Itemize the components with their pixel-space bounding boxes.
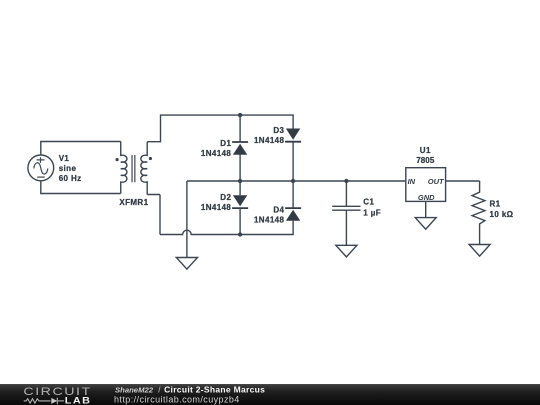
svg-text:sine: sine [59, 164, 77, 173]
svg-text:D1: D1 [220, 139, 231, 148]
svg-text:7805: 7805 [416, 156, 435, 165]
svg-text:GND: GND [418, 193, 435, 202]
svg-text:1N4148: 1N4148 [254, 136, 285, 145]
svg-text:IN: IN [408, 177, 416, 186]
svg-text:OUT: OUT [428, 177, 445, 186]
svg-text:1N4148: 1N4148 [201, 149, 232, 158]
svg-text:LAB: LAB [65, 396, 92, 405]
svg-text:U1: U1 [420, 146, 431, 155]
svg-text:Circuit 2-Shane Marcus: Circuit 2-Shane Marcus [164, 385, 265, 395]
svg-text:R1: R1 [490, 199, 501, 208]
svg-text:XFMR1: XFMR1 [119, 198, 148, 207]
svg-text:http://circuitlab.com/cuypzb4: http://circuitlab.com/cuypzb4 [114, 395, 240, 405]
svg-text:ShaneM22: ShaneM22 [115, 386, 154, 395]
svg-text:10 kΩ: 10 kΩ [490, 210, 514, 219]
svg-text:V1: V1 [59, 154, 70, 163]
svg-text:D4: D4 [273, 205, 284, 214]
svg-text:1N4148: 1N4148 [254, 216, 285, 225]
svg-text:1 µF: 1 µF [363, 209, 381, 218]
svg-text:C1: C1 [363, 198, 374, 207]
svg-text:60 Hz: 60 Hz [59, 174, 82, 183]
svg-text:D2: D2 [220, 193, 231, 202]
svg-text:1N4148: 1N4148 [201, 203, 232, 212]
svg-text:D3: D3 [273, 126, 284, 135]
